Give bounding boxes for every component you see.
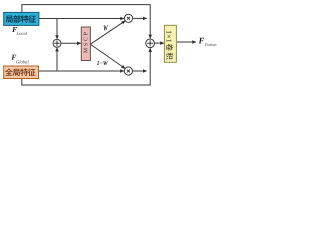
label W [104, 25, 108, 30]
wire conv output to F_Fusion [177, 41, 196, 43]
wire branch global up into left adder [56, 48, 58, 71]
wire W weight diagonal to top multiplier [91, 21, 126, 44]
wire F_Local row to top multiplier [39, 18, 124, 20]
wire top multiplier output [133, 17, 147, 19]
wire bottom bypass residual from global box to right adder [22, 48, 150, 85]
multiplier top [124, 14, 132, 22]
multiplier bottom [124, 67, 132, 75]
block MSCP [81, 27, 90, 61]
wire bottom multiplier output [133, 70, 147, 72]
block conv 1x1 卷积 [164, 25, 176, 62]
adder right [146, 39, 155, 48]
label F_Global [11, 55, 28, 64]
wire right adder to conv block [155, 42, 164, 44]
wire top bypass residual from local box to right adder [22, 5, 150, 39]
wire F_Global row to bottom multiplier [39, 70, 124, 72]
wire branch local down into left adder [56, 19, 58, 39]
label F_Fusion [199, 38, 217, 46]
box local feature 局部特征 [4, 12, 39, 25]
label F_Local [12, 27, 27, 35]
wire left adder to MSCP [61, 42, 81, 44]
box global feature 全局特征 [4, 66, 39, 79]
wire 1-W weight diagonal to bottom multiplier [91, 44, 126, 68]
label 1-W [97, 61, 108, 65]
adder left [53, 39, 61, 47]
